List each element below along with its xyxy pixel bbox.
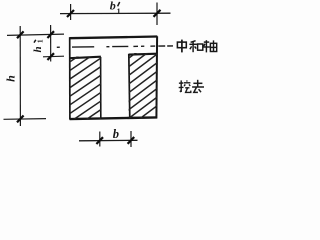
left cut-away rectangle: right edge — [100, 57, 102, 119]
char 挖 — [179, 80, 191, 92]
svg-text:b: b — [110, 0, 116, 13]
char 和 — [189, 41, 202, 53]
dimension h1' top tick — [47, 31, 54, 38]
dimension h1' bottom extension line — [43, 55, 64, 58]
dimension b1' left tick — [67, 10, 74, 17]
dimension h bottom tick — [17, 116, 24, 123]
svg-text:1: 1 — [35, 39, 44, 43]
char 去 — [192, 80, 204, 93]
dimension b1' right extension line — [156, 3, 158, 26]
dimension h: dimension line — [19, 26, 21, 126]
svg-text:h: h — [4, 75, 18, 82]
dimension h1' bottom tick — [47, 53, 54, 60]
dimension h top extension line — [7, 34, 64, 35]
dimension b1' left extension line — [70, 4, 72, 20]
neutral axis dash-dot line — [57, 46, 173, 47]
left cut-away hatching — [66, 39, 104, 142]
char 轴 — [203, 40, 217, 52]
section outline: right edge — [155, 36, 158, 118]
svg-text:h: h — [32, 46, 44, 52]
svg-text:1: 1 — [117, 7, 121, 16]
label: 挖去 (cut away), drawn as strokes — [179, 80, 204, 93]
dimension b bottom: dimension line — [79, 139, 138, 142]
section outline: bottom edge — [70, 117, 157, 119]
char 中 — [177, 40, 186, 53]
dimension b left extension line — [99, 132, 101, 147]
label h1' — [32, 39, 44, 52]
dimension h top tick — [17, 31, 24, 38]
right cut-away rectangle: top edge — [129, 53, 157, 56]
dimension h bottom extension line — [4, 118, 47, 121]
dimension b left tick — [96, 137, 103, 144]
dimension b1' right tick — [154, 10, 161, 17]
dimension b right extension line — [130, 131, 132, 147]
left cut-away rectangle: top edge — [70, 57, 101, 59]
right cut-away rectangle: left edge — [129, 54, 130, 119]
label: 中和轴 (neutral axis), drawn as strokes — [177, 40, 216, 53]
dimension h1': dimension line — [50, 25, 52, 62]
label b1' — [110, 0, 121, 16]
section outline: left edge — [69, 37, 71, 119]
dimension b1' top: dimension line — [60, 12, 171, 14]
right cut-away hatching — [125, 34, 161, 130]
dimension b right tick — [128, 137, 135, 144]
section outline: top edge — [70, 37, 158, 39]
svg-text:b: b — [113, 127, 119, 141]
